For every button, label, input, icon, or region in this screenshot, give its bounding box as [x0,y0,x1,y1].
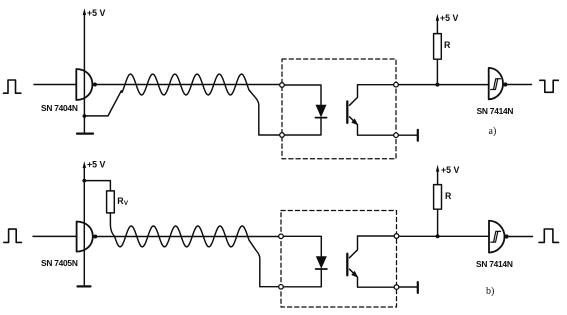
svg-text:+5 V: +5 V [440,13,458,23]
svg-text:a): a) [489,126,497,137]
svg-text:R: R [445,191,452,201]
svg-text:SN 7414N: SN 7414N [477,106,514,116]
svg-text:SN 7414N: SN 7414N [476,259,513,269]
svg-text:+5 V: +5 V [441,165,459,175]
svg-text:R: R [444,40,451,50]
svg-text:+5 V: +5 V [87,8,105,18]
svg-text:b): b) [486,286,494,297]
svg-text:+5 V: +5 V [87,159,105,169]
svg-text:SN 7405N: SN 7405N [41,258,78,268]
svg-text:SN 7404N: SN 7404N [41,103,78,113]
